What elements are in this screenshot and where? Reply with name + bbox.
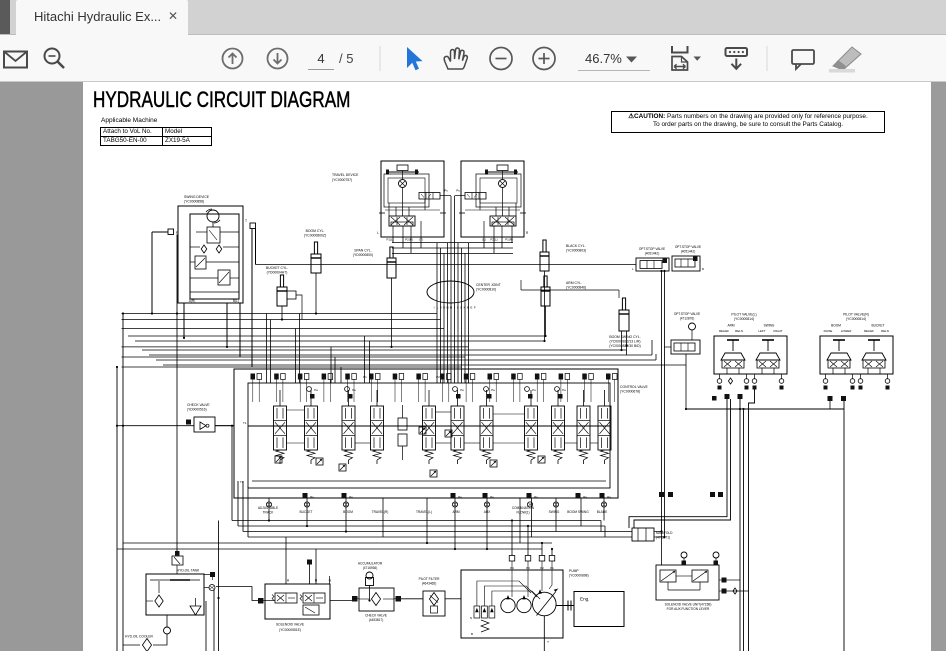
svg-text:(YD0000516): (YD0000516) bbox=[187, 408, 207, 412]
svg-text:(YC0000803): (YC0000803) bbox=[566, 249, 586, 253]
svg-text:Pa: Pa bbox=[534, 495, 538, 499]
svg-text:RELN: RELN bbox=[881, 329, 889, 333]
svg-text:N: N bbox=[470, 616, 472, 620]
svg-text:FLOW(1): FLOW(1) bbox=[516, 510, 529, 514]
svg-text:(YC0000858): (YC0000858) bbox=[184, 200, 204, 204]
svg-text:SWING DEVICE: SWING DEVICE bbox=[184, 195, 210, 199]
svg-text:R: R bbox=[526, 231, 529, 235]
svg-text:(4453817): (4453817) bbox=[369, 618, 384, 622]
svg-text:BOOM CYL.: BOOM CYL. bbox=[306, 229, 325, 233]
svg-text:CHECK VALVE: CHECK VALVE bbox=[365, 614, 387, 618]
svg-text:Pa: Pa bbox=[532, 388, 536, 392]
svg-text:(YC0000812/13 L/R): (YC0000812/13 L/R) bbox=[609, 340, 640, 344]
svg-text:AUX: AUX bbox=[484, 510, 491, 514]
svg-text:RELIEF: RELIEF bbox=[864, 329, 874, 333]
svg-text:BLACK CYL.: BLACK CYL. bbox=[566, 244, 586, 248]
svg-text:SWING: SWING bbox=[549, 510, 560, 514]
svg-text:(YC0000814): (YC0000814) bbox=[734, 317, 754, 321]
svg-text:(4051442): (4051442) bbox=[645, 251, 660, 255]
svg-text:P2: P2 bbox=[436, 375, 440, 379]
svg-text:L: L bbox=[437, 306, 439, 310]
svg-text:RIGHT: RIGHT bbox=[774, 329, 783, 333]
svg-text:LEFT: LEFT bbox=[758, 329, 765, 333]
svg-text:B: B bbox=[471, 632, 473, 636]
svg-text:BOOM SWING: BOOM SWING bbox=[567, 510, 589, 514]
svg-text:P1(L): P1(L) bbox=[386, 238, 393, 242]
svg-text:Pa: Pa bbox=[460, 388, 464, 392]
svg-text:BUCKET: BUCKET bbox=[872, 324, 885, 328]
svg-text:Pa: Pa bbox=[458, 495, 462, 499]
svg-text:PILOT VALVE(R): PILOT VALVE(R) bbox=[843, 313, 869, 317]
svg-text:SPAN CYL.: SPAN CYL. bbox=[354, 249, 372, 253]
svg-text:/ 5: / 5 bbox=[339, 51, 353, 66]
svg-text:(YD00004H7): (YD00004H7) bbox=[267, 271, 288, 275]
svg-text:ARM: ARM bbox=[727, 324, 734, 328]
svg-text:T: T bbox=[245, 219, 247, 223]
svg-text:E: E bbox=[470, 306, 472, 310]
svg-text:Pa: Pa bbox=[583, 495, 587, 499]
svg-text:Pa: Pa bbox=[490, 495, 494, 499]
svg-text:SWING: SWING bbox=[764, 324, 775, 328]
svg-text:Ps: Ps bbox=[456, 189, 460, 193]
svg-text:LOWER: LOWER bbox=[841, 329, 852, 333]
svg-text:4: 4 bbox=[317, 51, 324, 66]
svg-text:TRACK: TRACK bbox=[263, 510, 275, 514]
svg-text:L: L bbox=[377, 231, 379, 235]
svg-text:Pa: Pa bbox=[349, 495, 353, 499]
svg-text:P1: P1 bbox=[363, 375, 367, 379]
svg-text:B(L): B(L) bbox=[233, 299, 239, 303]
svg-text:F: F bbox=[474, 306, 476, 310]
svg-text:(4712876): (4712876) bbox=[680, 316, 695, 320]
svg-text:Pa: Pa bbox=[314, 388, 318, 392]
svg-text:TRAVEL(R): TRAVEL(R) bbox=[372, 510, 389, 514]
svg-text:RELN: RELN bbox=[735, 329, 743, 333]
svg-text:(4643465): (4643465) bbox=[422, 582, 437, 586]
svg-text:R: R bbox=[702, 267, 705, 271]
svg-text:T1: T1 bbox=[243, 421, 247, 425]
svg-text:(YC0000898): (YC0000898) bbox=[569, 574, 589, 578]
svg-text:RAISE: RAISE bbox=[824, 329, 833, 333]
svg-text:Eng.: Eng. bbox=[580, 597, 589, 602]
svg-text:(YC0000551E): (YC0000551E) bbox=[279, 628, 301, 632]
svg-text:SOLENOID VALVE: SOLENOID VALVE bbox=[276, 623, 305, 627]
svg-text:P2(R): P2(R) bbox=[405, 238, 413, 242]
svg-text:(4716936): (4716936) bbox=[363, 566, 378, 570]
svg-text:(YC0000829/30 B/D): (YC0000829/30 B/D) bbox=[609, 344, 640, 348]
svg-text:PUMP: PUMP bbox=[569, 569, 579, 573]
svg-text:K: K bbox=[464, 306, 466, 310]
svg-text:TRAVEL DEVICE: TRAVEL DEVICE bbox=[332, 173, 359, 177]
svg-text:(YC0000678): (YC0000678) bbox=[620, 390, 640, 394]
svg-text:Pa: Pa bbox=[562, 388, 566, 392]
svg-text:A: A bbox=[287, 579, 290, 583]
svg-text:PILOT VALVE(L): PILOT VALVE(L) bbox=[731, 313, 756, 317]
svg-text:BUCKET CYL.: BUCKET CYL. bbox=[266, 266, 288, 270]
svg-text:L: L bbox=[632, 267, 634, 271]
svg-text:HYD.OIL TANK: HYD.OIL TANK bbox=[177, 569, 200, 573]
svg-text:BUCKET: BUCKET bbox=[300, 510, 313, 514]
svg-text:(YC0000757): (YC0000757) bbox=[332, 178, 352, 182]
svg-text:(4711171): (4711171) bbox=[656, 536, 670, 540]
svg-text:BOOM SWING CYL.: BOOM SWING CYL. bbox=[609, 335, 640, 339]
svg-text:(4051442): (4051442) bbox=[681, 249, 696, 253]
svg-text:SOLENOID VALVE UNIT(4715B): SOLENOID VALVE UNIT(4715B) bbox=[665, 603, 712, 607]
svg-text:M: M bbox=[467, 306, 470, 310]
svg-text:(YC0000846): (YC0000846) bbox=[566, 286, 586, 290]
svg-text:Pa: Pa bbox=[491, 388, 495, 392]
svg-text:ARM: ARM bbox=[452, 510, 459, 514]
svg-text:(YC0000810): (YC0000810) bbox=[476, 288, 496, 292]
svg-text:HYD.OIL COOLER: HYD.OIL COOLER bbox=[125, 635, 154, 639]
svg-text:A(R): A(R) bbox=[189, 299, 196, 303]
svg-text:BOOM: BOOM bbox=[343, 510, 353, 514]
svg-text:(YC0000814): (YC0000814) bbox=[846, 317, 866, 321]
svg-text:TRAVEL(L): TRAVEL(L) bbox=[416, 510, 432, 514]
svg-text:Ps: Ps bbox=[444, 189, 448, 193]
svg-text:FOR AUX.FUNCTION LEVER: FOR AUX.FUNCTION LEVER bbox=[667, 607, 710, 611]
svg-text:ARM CYL.: ARM CYL. bbox=[566, 281, 582, 285]
svg-text:CHECK VALVE: CHECK VALVE bbox=[187, 403, 210, 407]
svg-text:T: T bbox=[547, 640, 549, 644]
svg-text:CONTROL VALVE: CONTROL VALVE bbox=[620, 385, 649, 389]
svg-text:BLADE: BLADE bbox=[597, 510, 607, 514]
svg-text:Pa: Pa bbox=[310, 495, 314, 499]
svg-text:J: J bbox=[440, 306, 442, 310]
svg-text:BOOM: BOOM bbox=[831, 324, 841, 328]
svg-text:(YC0000800Z): (YC0000800Z) bbox=[304, 234, 326, 238]
svg-text:RELIEF: RELIEF bbox=[719, 329, 729, 333]
svg-text:PILOT FILTER: PILOT FILTER bbox=[419, 577, 440, 581]
svg-text:46.7%: 46.7% bbox=[585, 51, 622, 66]
svg-text:ACCUMULATOR: ACCUMULATOR bbox=[358, 562, 383, 566]
svg-text:N: N bbox=[447, 306, 449, 310]
svg-text:G: G bbox=[329, 579, 332, 583]
svg-text:I: I bbox=[434, 306, 435, 310]
svg-text:Pa: Pa bbox=[352, 388, 356, 392]
svg-text:Pa: Pa bbox=[607, 495, 611, 499]
svg-text:H: H bbox=[450, 306, 452, 310]
svg-text:CENTER JOINT: CENTER JOINT bbox=[476, 283, 501, 287]
svg-text:S: S bbox=[457, 306, 459, 310]
svg-text:(YD0000800): (YD0000800) bbox=[353, 253, 373, 257]
